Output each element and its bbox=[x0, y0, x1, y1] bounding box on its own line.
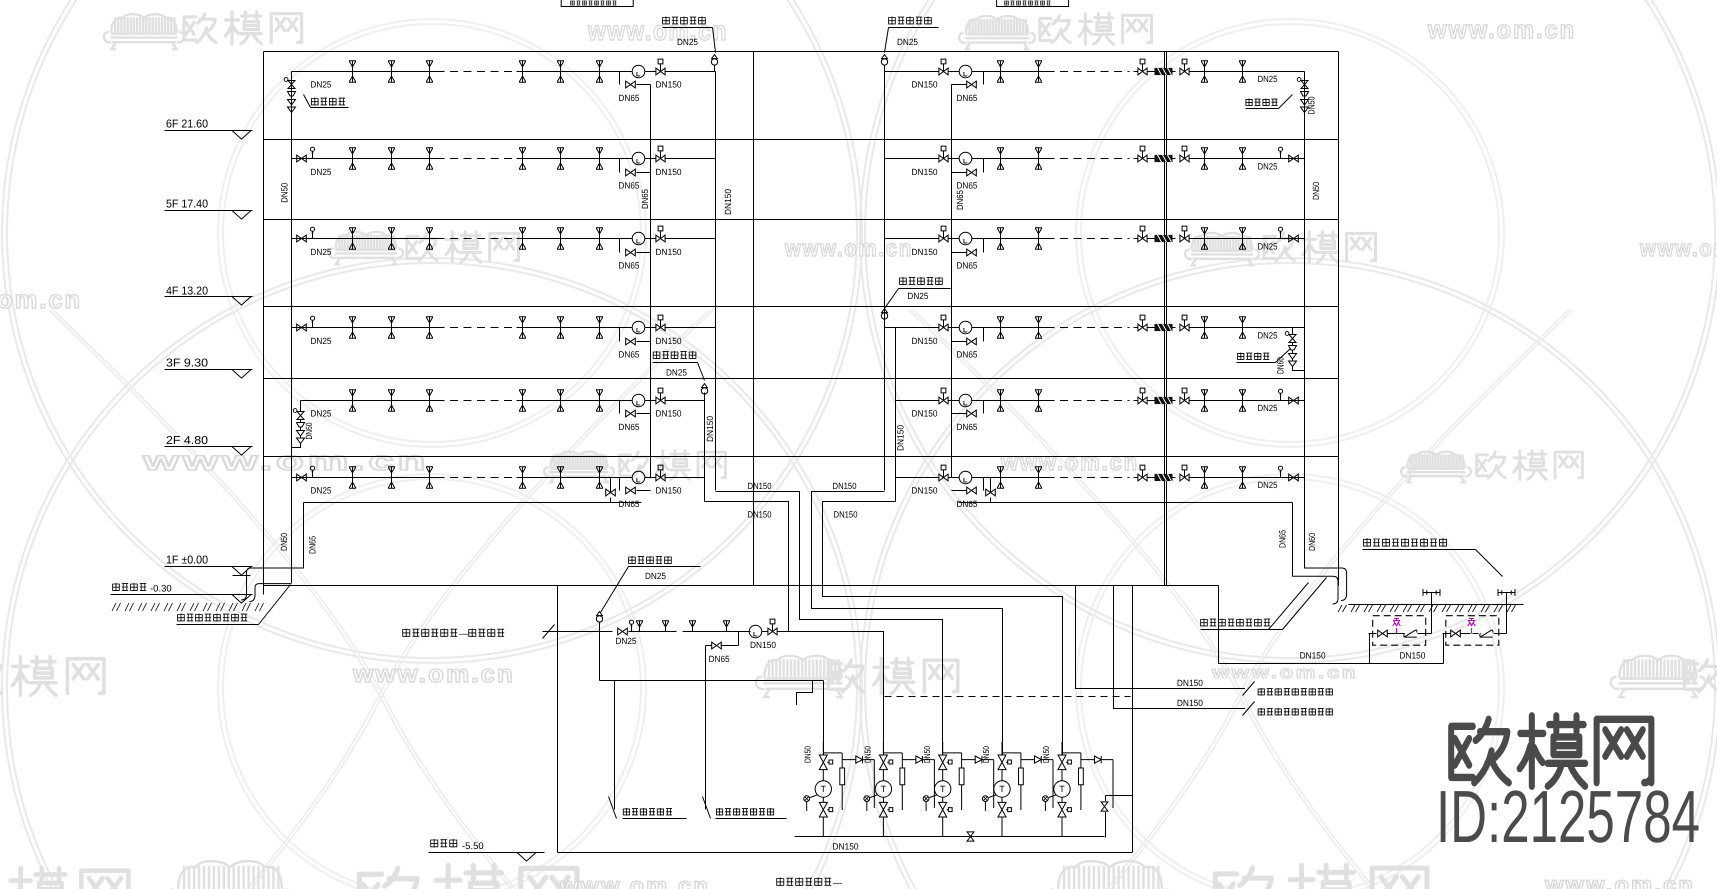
svg-text:DN150: DN150 bbox=[750, 640, 776, 650]
label 喷淋用水 bbox=[469, 629, 504, 638]
test drain assembly 6F right bbox=[1304, 72, 1306, 79]
label 试水接头 6F right bbox=[1246, 99, 1278, 107]
valve DN25 end 2F right bbox=[1289, 397, 1299, 404]
pipe DN150 riser right wing bbox=[884, 72, 886, 491]
pipe to well 1 bbox=[614, 681, 616, 810]
valve after joint bbox=[1180, 59, 1189, 75]
svg-text:DN25: DN25 bbox=[1258, 403, 1278, 413]
branch row 4F right wing bbox=[885, 238, 939, 240]
signal valve DN150 5F left bbox=[656, 146, 665, 162]
wire drop 1F left bbox=[610, 478, 612, 493]
valve DN65 drain 5F bbox=[626, 169, 636, 176]
sprinkler bbox=[997, 390, 1004, 411]
svg-text:DN150: DN150 bbox=[656, 167, 682, 177]
svg-text:DN150: DN150 bbox=[656, 80, 682, 90]
flow indicator 4F right bbox=[959, 232, 972, 245]
leader bbox=[1283, 578, 1327, 630]
sprinkler bbox=[519, 148, 526, 169]
svg-text:DN65: DN65 bbox=[957, 422, 978, 432]
pipe left standpipe DN50 bbox=[291, 72, 293, 584]
branch row 6F right wing bbox=[885, 71, 939, 73]
signal valve DN150 4F left bbox=[656, 226, 665, 242]
sprinkler bbox=[426, 390, 433, 411]
pipe DN150 staircase D bbox=[823, 502, 1063, 756]
sprinkler bbox=[557, 467, 564, 488]
svg-text:DN150: DN150 bbox=[1399, 651, 1425, 661]
svg-text:DN50: DN50 bbox=[280, 183, 290, 203]
svg-text:DN25: DN25 bbox=[1258, 241, 1278, 251]
svg-text:DN50: DN50 bbox=[1307, 97, 1317, 115]
title box top 2 bbox=[997, 0, 1069, 7]
valve DN65 drain 5F right bbox=[967, 169, 977, 176]
air vent bbox=[310, 147, 314, 158]
svg-text:-5.50: -5.50 bbox=[462, 841, 484, 852]
svg-text:www.om.cn: www.om.cn bbox=[352, 661, 515, 688]
svg-text:DN150: DN150 bbox=[656, 247, 682, 257]
siamese connection 2 bbox=[1498, 589, 1515, 596]
sprinkler bbox=[426, 148, 433, 169]
flow indicator 1F right bbox=[959, 471, 972, 484]
svg-text:-0.30: -0.30 bbox=[150, 584, 172, 595]
label 地上式喷淋水泵接合器 bbox=[1364, 538, 1447, 547]
pump P5 bbox=[1043, 742, 1114, 837]
sprinkler bbox=[1035, 61, 1042, 82]
svg-text:www.om.cn: www.om.cn bbox=[559, 873, 710, 889]
svg-text:DN65: DN65 bbox=[957, 350, 978, 360]
svg-text:DN65: DN65 bbox=[709, 654, 730, 664]
svg-text:T: T bbox=[1059, 784, 1065, 794]
svg-text:www.om.cn: www.om.cn bbox=[1427, 16, 1576, 44]
flow indicator 6F right bbox=[959, 65, 972, 78]
siamese connection 1 bbox=[1423, 589, 1440, 596]
label 自动排气阀 6F right bbox=[889, 17, 932, 25]
svg-text:DN150: DN150 bbox=[656, 336, 682, 346]
valve DN25 end 5F right bbox=[1289, 155, 1299, 162]
svg-text:www.om.cn: www.om.cn bbox=[1639, 235, 1717, 261]
sprinkler bbox=[1239, 61, 1246, 82]
sprinkler bbox=[1239, 148, 1246, 169]
wire pump1 suction bbox=[823, 681, 825, 756]
valve DN25 end 4F right bbox=[1289, 235, 1299, 242]
sprinkler bbox=[1239, 228, 1246, 249]
label 自动排气阀 basement bbox=[629, 556, 672, 564]
label 自动排气阀 3F left bbox=[653, 351, 696, 359]
svg-text:DN65: DN65 bbox=[957, 181, 978, 191]
svg-text:DN50: DN50 bbox=[279, 533, 289, 551]
valve DN25 basement bbox=[618, 628, 628, 635]
wire pump room left wall bbox=[557, 586, 559, 853]
svg-text:DN65: DN65 bbox=[619, 260, 640, 270]
valve DN65 drain 1F right bbox=[967, 487, 977, 494]
label 地下室 bbox=[431, 839, 457, 848]
svg-text:DN65: DN65 bbox=[957, 260, 978, 270]
svg-text:DN65: DN65 bbox=[619, 181, 640, 191]
flow indicator 2F right bbox=[959, 394, 972, 407]
svg-text:DN150: DN150 bbox=[705, 416, 715, 442]
test drain assembly 6F left bbox=[284, 78, 295, 117]
check valve connector1 bbox=[1404, 630, 1417, 637]
flow indicator 6F left bbox=[632, 65, 645, 78]
pipe DN150 to outdoor ring main 1 bbox=[1076, 586, 1246, 689]
valve DN25 end 1F right bbox=[1289, 474, 1299, 481]
svg-text:4F 13.20: 4F 13.20 bbox=[166, 285, 208, 297]
ground hatch right bbox=[1338, 605, 1516, 612]
svg-text:—: — bbox=[833, 878, 842, 888]
signal valve DN150 2F right bbox=[939, 388, 948, 404]
upright sprinkler bbox=[662, 621, 669, 632]
svg-text:T: T bbox=[881, 784, 887, 794]
svg-text:DN65: DN65 bbox=[619, 350, 640, 360]
signal valve DN150 1F left bbox=[656, 465, 665, 481]
svg-text:DN150: DN150 bbox=[896, 425, 906, 451]
flow indicator 3F right bbox=[959, 321, 972, 334]
sprinkler bbox=[349, 317, 356, 338]
svg-text:1F ±0.00: 1F ±0.00 bbox=[166, 555, 208, 567]
flow indicator 5F right bbox=[959, 152, 972, 165]
auto air vent 3F right bbox=[881, 309, 887, 326]
pump P3 bbox=[923, 742, 994, 837]
svg-text:DN150: DN150 bbox=[1177, 698, 1203, 708]
sprinkler bbox=[1201, 228, 1208, 249]
svg-text:DN150: DN150 bbox=[656, 409, 682, 419]
svg-text:DN25: DN25 bbox=[677, 37, 698, 47]
branch row 5F left wing bbox=[292, 158, 437, 160]
leader bbox=[259, 585, 291, 625]
sprinkler bbox=[349, 148, 356, 169]
sprinkler bbox=[997, 467, 1004, 488]
sprinkler bbox=[596, 317, 603, 338]
signal valve at joint bbox=[1138, 388, 1147, 404]
sprinkler bbox=[388, 148, 395, 169]
valve DN25 branch start 3F bbox=[297, 324, 307, 331]
valve after joint bbox=[1180, 465, 1189, 481]
pipe DN65 to ditch bbox=[241, 568, 303, 600]
sprinkler bbox=[1035, 148, 1042, 169]
wire pump room right wall bbox=[1132, 586, 1134, 853]
relief valve magenta 2 bbox=[1468, 619, 1476, 634]
sprinkler bbox=[388, 61, 395, 82]
svg-text:DN65: DN65 bbox=[619, 93, 640, 103]
sprinkler bbox=[596, 148, 603, 169]
svg-text:DN150: DN150 bbox=[912, 167, 938, 177]
branch row 4F left wing bbox=[292, 238, 437, 240]
valve DN65 drain 2F right bbox=[967, 410, 977, 417]
label 接至消防集水井 bbox=[716, 808, 773, 816]
flow indicator basement bbox=[749, 625, 762, 638]
signal valve DN150 5F right bbox=[939, 146, 948, 162]
sprinkler bbox=[1035, 317, 1042, 338]
pipe discharge manifold DN150 bbox=[795, 836, 1105, 838]
leader bbox=[698, 363, 705, 381]
leader bbox=[713, 28, 716, 53]
sprinkler bbox=[557, 317, 564, 338]
valve after joint bbox=[1180, 226, 1189, 242]
svg-text:DN60: DN60 bbox=[1276, 357, 1286, 374]
svg-text:DN65: DN65 bbox=[640, 189, 650, 209]
branch row 1F left wing bbox=[292, 477, 437, 479]
svg-text:DN150: DN150 bbox=[656, 486, 682, 496]
wire building left wall bbox=[263, 52, 265, 595]
signal valve DN150 2F left bbox=[656, 388, 665, 404]
label 闷接排至室外明沟 right bbox=[1201, 619, 1271, 627]
svg-text:T: T bbox=[999, 784, 1005, 794]
sprinkler bbox=[426, 317, 433, 338]
svg-text:DN150: DN150 bbox=[912, 336, 938, 346]
svg-text:DN50: DN50 bbox=[1311, 182, 1321, 200]
sprinkler bbox=[388, 390, 395, 411]
expansion joint sleeve bbox=[1155, 155, 1173, 162]
label 室外地坪 bbox=[113, 583, 147, 591]
svg-text:DN150: DN150 bbox=[833, 842, 859, 852]
svg-text:DN25: DN25 bbox=[311, 167, 332, 177]
break symbol bbox=[543, 625, 555, 639]
upright sprinkler bbox=[636, 621, 643, 632]
label 接室外喷淋快水环网 1 bbox=[1258, 688, 1332, 696]
svg-text:DN25: DN25 bbox=[1258, 331, 1278, 341]
auto air vent 2F left bbox=[701, 384, 707, 401]
svg-text:DN65: DN65 bbox=[957, 93, 978, 103]
svg-text:DN50: DN50 bbox=[803, 746, 813, 763]
svg-text:DN50: DN50 bbox=[922, 746, 932, 763]
wire drop to collector bbox=[599, 632, 601, 681]
sprinkler bbox=[519, 61, 526, 82]
leader bbox=[885, 28, 889, 53]
svg-text:DN25: DN25 bbox=[311, 247, 332, 257]
test drain assembly 2F left bbox=[293, 409, 304, 448]
svg-text:5F 17.40: 5F 17.40 bbox=[166, 199, 208, 211]
pipe to well 2 bbox=[705, 646, 707, 810]
signal valve DN150 basement bbox=[768, 619, 777, 635]
sprinkler bbox=[426, 467, 433, 488]
relief valve magenta 1 bbox=[1393, 619, 1401, 634]
signal valve DN150 6F right bbox=[939, 59, 948, 75]
sprinkler bbox=[1239, 390, 1246, 411]
signal valve at joint bbox=[1138, 59, 1147, 75]
branch row 3F right wing bbox=[885, 327, 939, 329]
test drain assembly 3F right bbox=[1292, 328, 1294, 333]
watermark layer bbox=[218, 19, 646, 447]
air vent bbox=[310, 316, 314, 327]
label 供人防储藏库 bbox=[403, 629, 457, 638]
break symbol ring1 bbox=[1243, 682, 1255, 696]
leader bbox=[601, 567, 629, 613]
small zigzag near pump1 bbox=[797, 681, 813, 706]
svg-text:DN150: DN150 bbox=[912, 486, 938, 496]
valve after joint bbox=[1180, 146, 1189, 162]
svg-text:DN25: DN25 bbox=[311, 80, 332, 90]
sprinkler bbox=[388, 467, 395, 488]
svg-text:DN25: DN25 bbox=[897, 37, 918, 47]
sprinkler bbox=[388, 228, 395, 249]
svg-text:DN25: DN25 bbox=[311, 409, 332, 419]
wire expansion joint line 2 bbox=[1166, 52, 1168, 586]
wire outdoor ground right bbox=[1349, 604, 1524, 606]
pipe DN65 collector right bbox=[959, 502, 1293, 504]
pipe connector2 riser bbox=[1506, 593, 1508, 634]
sprinkler bbox=[519, 467, 526, 488]
pipe DN150 riser2 left wing bbox=[704, 393, 706, 502]
pipe DN65 collector 1F bbox=[304, 502, 642, 504]
valve DN65 drain 6F bbox=[626, 81, 636, 88]
pipe DN50 to ditch right bbox=[1305, 568, 1347, 601]
wire basement level line bbox=[429, 852, 545, 854]
label 自动排气阀 6F left bbox=[663, 17, 706, 25]
svg-text:DN50: DN50 bbox=[863, 746, 873, 763]
wire expansion joint line 1 bbox=[1164, 52, 1166, 586]
upright sprinkler bbox=[689, 621, 696, 632]
expansion joint sleeve bbox=[1155, 235, 1173, 242]
label 自动排气阀 3F right bbox=[900, 277, 943, 285]
sprinkler bbox=[1201, 61, 1208, 82]
sprinkler bbox=[426, 228, 433, 249]
svg-text:DN150: DN150 bbox=[834, 510, 858, 520]
svg-text:T: T bbox=[940, 784, 946, 794]
欧模网 logo bottom right bbox=[1451, 716, 1651, 786]
label 接室外喷淋快水环网 2 bbox=[1258, 708, 1332, 716]
signal valve DN150 4F right bbox=[939, 226, 948, 242]
svg-text:DN25: DN25 bbox=[907, 291, 928, 301]
leader well2 bbox=[703, 797, 711, 819]
pipe DN65 to ditch right bbox=[1293, 576, 1339, 604]
svg-text:DN50: DN50 bbox=[981, 746, 991, 763]
sprinkler bbox=[997, 317, 1004, 338]
sprinkler bbox=[349, 390, 356, 411]
expansion joint sleeve bbox=[1155, 397, 1173, 404]
valve DN65 drain 1F bbox=[626, 487, 636, 494]
pump P1 bbox=[804, 742, 875, 837]
signal valve at joint bbox=[1138, 146, 1147, 162]
flow indicator 2F left bbox=[632, 394, 645, 407]
sprinkler bbox=[1201, 390, 1208, 411]
sprinkler bbox=[596, 467, 603, 488]
pipe connector1 riser bbox=[1431, 593, 1433, 634]
ground hatch left bbox=[112, 603, 264, 611]
manifold riser to wall bbox=[1105, 812, 1107, 838]
svg-text:DN25: DN25 bbox=[1258, 480, 1278, 490]
signal valve at joint bbox=[1138, 465, 1147, 481]
sprinkler bbox=[349, 467, 356, 488]
wire building right wall bbox=[1338, 52, 1340, 586]
wire pump room floor bbox=[558, 852, 1133, 854]
svg-text:DN65: DN65 bbox=[957, 499, 978, 509]
expansion joint sleeve bbox=[1155, 324, 1173, 331]
svg-text:DN65: DN65 bbox=[955, 190, 965, 210]
branch row 5F right wing bbox=[885, 158, 939, 160]
wire DN65 drop basement bbox=[738, 632, 740, 646]
wire tank dashed line bbox=[885, 696, 1131, 698]
svg-text:DN150: DN150 bbox=[723, 189, 733, 215]
auto air vent 6F right bbox=[881, 55, 887, 72]
auto air vent basement bbox=[596, 612, 602, 629]
svg-text:DN150: DN150 bbox=[912, 409, 938, 419]
connector 2 internals bbox=[1443, 633, 1451, 635]
svg-text:DN25: DN25 bbox=[311, 336, 332, 346]
wire floor line 3F bbox=[264, 378, 1339, 380]
svg-text:—: — bbox=[459, 629, 468, 639]
valve DN65 1F right bbox=[986, 489, 996, 496]
cut text in box1 bbox=[570, 1, 616, 6]
sprinkler bbox=[596, 228, 603, 249]
valve DN65 drain 3F bbox=[626, 338, 636, 345]
svg-text:DN150: DN150 bbox=[912, 247, 938, 257]
pump P4 bbox=[983, 742, 1054, 837]
pipe DN150 riser2 right wing bbox=[895, 328, 897, 502]
valve DN65 drain 4F bbox=[626, 249, 636, 256]
label 生活消防用房 bbox=[777, 878, 832, 887]
pipe DN150 to outdoor ring main 2 bbox=[1114, 586, 1246, 709]
sprinkler bbox=[596, 390, 603, 411]
pipe DN50 riser right bbox=[1304, 72, 1306, 569]
valve after joint bbox=[1180, 388, 1189, 404]
svg-text:T: T bbox=[821, 784, 827, 794]
svg-text:www.om.cn: www.om.cn bbox=[1211, 663, 1358, 682]
sprinkler bbox=[557, 148, 564, 169]
svg-text:DN25: DN25 bbox=[1258, 162, 1278, 172]
svg-text:DN150: DN150 bbox=[912, 80, 938, 90]
sprinkler bbox=[519, 390, 526, 411]
label 排至废水集水井 bbox=[623, 808, 672, 816]
svg-text:DN50: DN50 bbox=[1041, 746, 1051, 763]
pipe DN150 to pump connectors bbox=[1219, 586, 1444, 664]
sprinkler bbox=[997, 228, 1004, 249]
valve connector1 bbox=[1378, 630, 1388, 637]
air vent bbox=[310, 466, 314, 477]
upright sprinkler bbox=[723, 621, 730, 632]
branch row 1F right wing bbox=[896, 477, 939, 479]
title box top 1 bbox=[561, 0, 633, 7]
sprinkler bbox=[1035, 467, 1042, 488]
svg-text:DN25: DN25 bbox=[666, 368, 687, 378]
branch row 3F left wing bbox=[292, 327, 437, 329]
svg-text:2F 4.80: 2F 4.80 bbox=[166, 435, 208, 447]
svg-text:www.om.cn: www.om.cn bbox=[141, 446, 429, 476]
expansion joint sleeve bbox=[1155, 68, 1173, 75]
valve connector2 bbox=[1451, 630, 1461, 637]
sprinkler bbox=[1035, 228, 1042, 249]
pipe DN150 staircase A bbox=[716, 492, 943, 756]
svg-text:DN150: DN150 bbox=[748, 510, 772, 520]
air vent bbox=[310, 227, 314, 238]
wire test drain to standpipe 2F bbox=[292, 447, 301, 449]
signal valve DN150 3F right bbox=[939, 315, 948, 331]
wire ground line bbox=[264, 585, 1219, 587]
air vent bbox=[629, 620, 633, 631]
auto air vent 6F left bbox=[711, 55, 717, 72]
label 试水接头 6F left bbox=[311, 98, 345, 106]
leader bbox=[885, 289, 899, 309]
branch row 6F left wing bbox=[292, 71, 437, 73]
signal valve DN150 3F left bbox=[656, 315, 665, 331]
svg-text:DN25: DN25 bbox=[1258, 74, 1278, 84]
svg-text:DN150: DN150 bbox=[748, 481, 772, 491]
label 闷接排至室外明沟 left bbox=[178, 614, 248, 622]
branch row 2F right wing bbox=[896, 400, 939, 402]
svg-text:www.om.cn: www.om.cn bbox=[587, 16, 728, 46]
svg-text:DN60: DN60 bbox=[1307, 533, 1317, 551]
svg-text:www.om.cn: www.om.cn bbox=[0, 286, 82, 314]
sprinkler bbox=[997, 61, 1004, 82]
valve DN65 1F drain bbox=[606, 489, 616, 496]
sprinkler bbox=[519, 228, 526, 249]
valve DN65 drain 2F bbox=[626, 410, 636, 417]
wire wing separator wall bbox=[753, 52, 755, 586]
svg-text:DN25: DN25 bbox=[645, 571, 666, 581]
sprinkler bbox=[426, 61, 433, 82]
svg-text:www.om.cn: www.om.cn bbox=[1000, 449, 1139, 475]
wire building top frame bbox=[264, 51, 1339, 53]
sprinkler bbox=[388, 317, 395, 338]
flow indicator 5F left bbox=[632, 152, 645, 165]
